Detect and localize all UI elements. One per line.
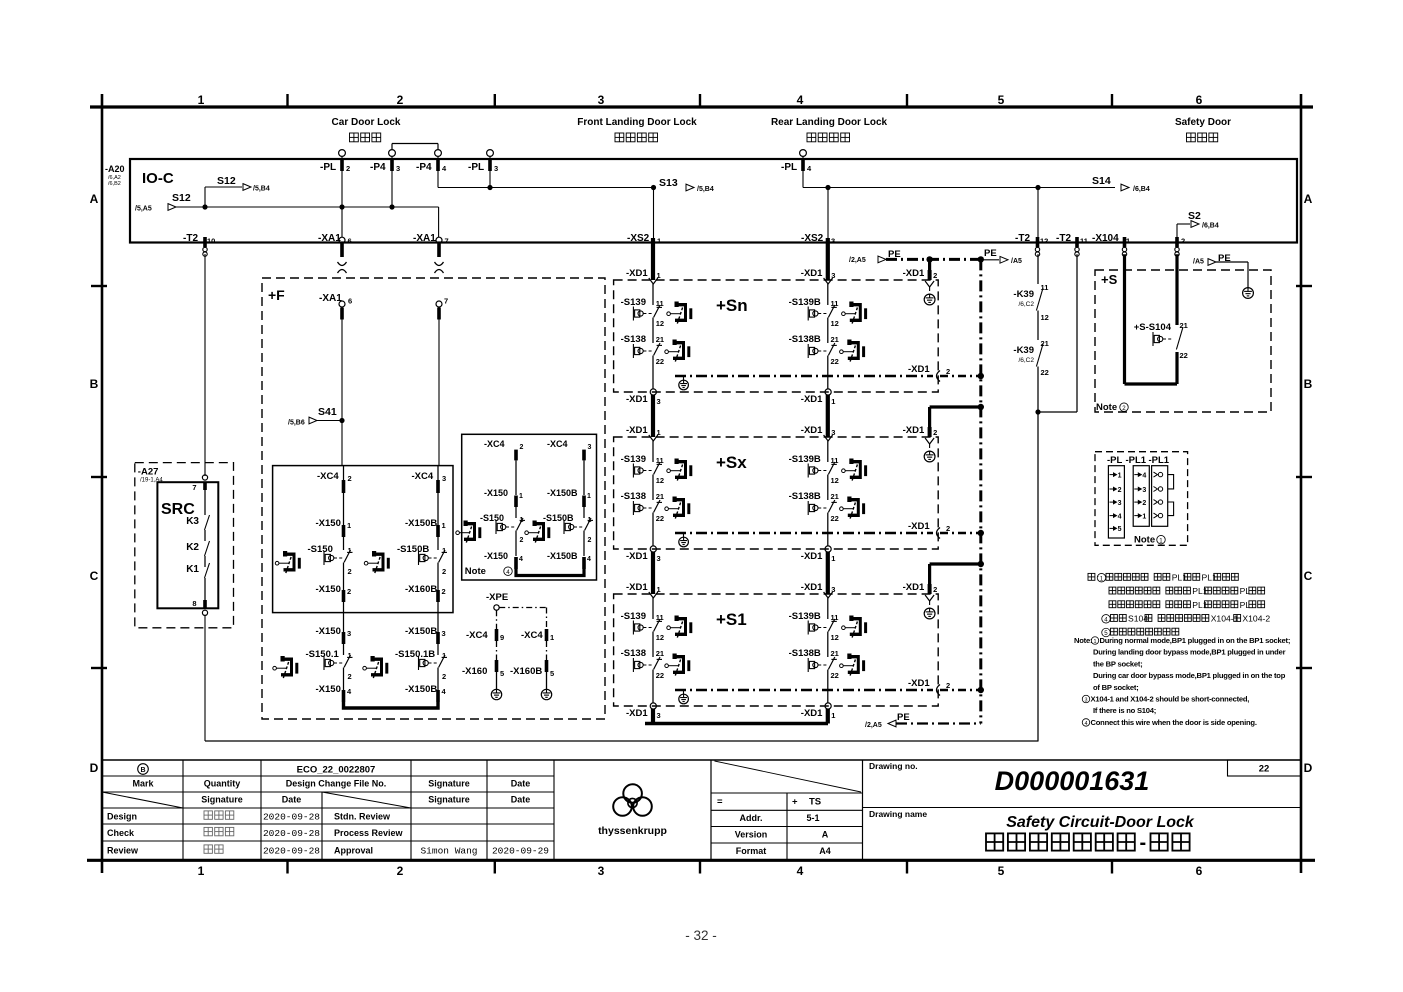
svg-text:4: 4 xyxy=(587,556,591,563)
svg-text:-S139B: -S139B xyxy=(789,297,821,308)
svg-text:-XD1: -XD1 xyxy=(903,582,925,593)
svg-text:-XD1: -XD1 xyxy=(903,425,925,436)
svg-text:-XD1: -XD1 xyxy=(626,582,648,593)
svg-text:12: 12 xyxy=(831,319,839,328)
svg-text:Mark: Mark xyxy=(132,779,154,789)
svg-text:1: 1 xyxy=(657,237,661,246)
svg-text:During landing door bypass mod: During landing door bypass mode,BP1 plug… xyxy=(1093,648,1286,657)
svg-text:-K39: -K39 xyxy=(1013,345,1034,356)
svg-text:1: 1 xyxy=(831,554,835,563)
svg-text:K2: K2 xyxy=(186,542,199,553)
svg-text:2: 2 xyxy=(442,672,446,681)
svg-text:2: 2 xyxy=(1118,487,1122,494)
svg-text:1: 1 xyxy=(550,633,554,642)
svg-text:A: A xyxy=(1304,192,1313,206)
svg-text:-XPE: -XPE xyxy=(486,592,508,603)
svg-text:21: 21 xyxy=(656,492,664,501)
svg-text:-S139: -S139 xyxy=(621,454,646,465)
svg-text:K3: K3 xyxy=(186,516,199,527)
svg-text:thyssenkrupp: thyssenkrupp xyxy=(598,825,667,837)
svg-text:-S150B: -S150B xyxy=(543,513,574,523)
svg-text:-T2: -T2 xyxy=(1015,233,1030,244)
svg-text:Version: Version xyxy=(735,830,768,840)
svg-text:1: 1 xyxy=(519,493,523,500)
svg-text:-S138B: -S138B xyxy=(789,334,821,345)
svg-text:3: 3 xyxy=(588,444,592,451)
svg-text:-X150: -X150 xyxy=(316,626,341,637)
svg-text:+S-S104: +S-S104 xyxy=(1134,322,1172,333)
svg-text:2: 2 xyxy=(946,367,950,376)
svg-text:Note: Note xyxy=(1134,535,1155,546)
svg-text:-XA1: -XA1 xyxy=(318,233,341,244)
svg-text:6: 6 xyxy=(348,297,352,306)
svg-text:-XS2: -XS2 xyxy=(627,233,650,244)
svg-text:3: 3 xyxy=(347,629,351,638)
svg-text:1: 1 xyxy=(1100,575,1104,582)
svg-text:-XD1: -XD1 xyxy=(801,394,823,405)
svg-text:21: 21 xyxy=(831,492,839,501)
svg-text:A: A xyxy=(822,830,829,840)
svg-text:3: 3 xyxy=(657,554,661,563)
svg-text:12: 12 xyxy=(656,476,664,485)
svg-text:Drawing no.: Drawing no. xyxy=(869,761,918,771)
svg-text:During normal mode,BP1 plugged: During normal mode,BP1 plugged in on the… xyxy=(1100,636,1291,645)
svg-text:/6,B4: /6,B4 xyxy=(1133,186,1150,193)
svg-text:10: 10 xyxy=(207,237,215,246)
svg-text:+Sn: +Sn xyxy=(716,296,748,315)
svg-text:1: 1 xyxy=(198,93,205,107)
svg-text:/5,A5: /5,A5 xyxy=(135,206,152,213)
svg-text:2: 2 xyxy=(346,164,350,173)
svg-text:2: 2 xyxy=(588,537,592,544)
svg-text:S2: S2 xyxy=(1188,210,1201,222)
svg-text:5: 5 xyxy=(998,93,1005,107)
svg-text:-S139B: -S139B xyxy=(789,454,821,465)
svg-text:-K39: -K39 xyxy=(1013,289,1034,300)
svg-text:5: 5 xyxy=(550,669,554,678)
svg-text:1: 1 xyxy=(1094,639,1097,645)
svg-text:ECO_22_0022807: ECO_22_0022807 xyxy=(297,765,376,776)
svg-text:-XS2: -XS2 xyxy=(801,233,824,244)
svg-text:PL1: PL1 xyxy=(1172,573,1188,583)
svg-text:-XD1: -XD1 xyxy=(801,708,823,719)
svg-text:22: 22 xyxy=(656,357,664,366)
svg-text:PL1: PL1 xyxy=(1192,600,1208,610)
svg-text:D: D xyxy=(1304,761,1313,775)
svg-text:12: 12 xyxy=(831,476,839,485)
svg-text:3: 3 xyxy=(1142,487,1146,494)
svg-text:1: 1 xyxy=(198,864,205,878)
svg-text:4: 4 xyxy=(1142,472,1146,479)
svg-text:21: 21 xyxy=(656,649,664,658)
svg-text:-XD1: -XD1 xyxy=(626,551,648,562)
svg-text:2: 2 xyxy=(397,864,404,878)
svg-text:-PL1: -PL1 xyxy=(1126,455,1147,466)
svg-text:-XD1: -XD1 xyxy=(626,394,648,405)
svg-text:-X150B: -X150B xyxy=(547,551,578,561)
svg-text:A4: A4 xyxy=(819,846,831,856)
svg-text:S14: S14 xyxy=(1092,175,1111,187)
svg-text:Approval: Approval xyxy=(334,846,373,856)
svg-text:X104-1: X104-1 xyxy=(1211,614,1239,624)
svg-text:2: 2 xyxy=(933,271,937,280)
svg-text:-XD1: -XD1 xyxy=(626,268,648,279)
svg-text:-XA1: -XA1 xyxy=(319,293,342,304)
svg-text:Rear Landing Door Lock: Rear Landing Door Lock xyxy=(771,117,888,128)
svg-text:-PL1: -PL1 xyxy=(1149,455,1170,466)
svg-text:Car Door Lock: Car Door Lock xyxy=(332,117,401,128)
svg-text:4: 4 xyxy=(1118,513,1122,520)
svg-text:S12: S12 xyxy=(217,175,236,187)
svg-text:PE: PE xyxy=(984,248,997,259)
svg-text:Connect this wire when the doo: Connect this wire when the door is side … xyxy=(1091,718,1257,727)
svg-text:-XD1: -XD1 xyxy=(801,268,823,279)
svg-text:Design Change File No.: Design Change File No. xyxy=(286,779,387,789)
svg-text:-S139: -S139 xyxy=(621,297,646,308)
svg-text:5-1: 5-1 xyxy=(806,813,819,823)
svg-text:3: 3 xyxy=(657,711,661,720)
svg-text:Review: Review xyxy=(107,846,139,856)
svg-text:-X150: -X150 xyxy=(484,488,508,498)
svg-text:Note: Note xyxy=(465,566,486,577)
svg-text:-XD1: -XD1 xyxy=(801,425,823,436)
svg-text:/2,A5: /2,A5 xyxy=(849,257,866,264)
svg-text:During car door bypass mode,BP: During car door bypass mode,BP1 plugged … xyxy=(1093,671,1286,680)
svg-text:Note: Note xyxy=(1096,402,1117,413)
svg-text:22: 22 xyxy=(831,671,839,680)
svg-text:-XD1: -XD1 xyxy=(908,364,930,375)
svg-text:-S139: -S139 xyxy=(621,611,646,622)
svg-text:-T2: -T2 xyxy=(183,233,198,244)
svg-text:8: 8 xyxy=(192,599,196,608)
svg-text:-X150: -X150 xyxy=(316,684,341,695)
svg-text:Signature: Signature xyxy=(428,779,470,789)
svg-text:4: 4 xyxy=(1085,721,1088,727)
svg-text:Note:: Note: xyxy=(1074,636,1092,645)
svg-text:12: 12 xyxy=(1041,313,1049,322)
svg-text:2: 2 xyxy=(933,428,937,437)
svg-text:7: 7 xyxy=(192,483,196,492)
svg-text:-S138B: -S138B xyxy=(789,648,821,659)
svg-text:2: 2 xyxy=(348,567,352,576)
svg-text:-S138: -S138 xyxy=(621,491,646,502)
svg-text:Simon Wang: Simon Wang xyxy=(420,846,477,857)
svg-text:PE: PE xyxy=(897,712,910,723)
svg-text:2020-09-28: 2020-09-28 xyxy=(263,812,320,823)
svg-text:/5,B4: /5,B4 xyxy=(697,186,714,193)
svg-text:Check: Check xyxy=(107,828,135,838)
svg-text:B: B xyxy=(140,767,145,774)
svg-text:21: 21 xyxy=(656,335,664,344)
svg-text:3: 3 xyxy=(494,164,498,173)
svg-text:2: 2 xyxy=(520,537,524,544)
svg-text:/2,A5: /2,A5 xyxy=(865,722,882,729)
svg-text:11: 11 xyxy=(1080,237,1088,246)
svg-text:-: - xyxy=(1140,832,1147,854)
svg-text:2: 2 xyxy=(933,585,937,594)
svg-text:D: D xyxy=(90,761,99,775)
svg-text:1: 1 xyxy=(831,711,835,720)
svg-text:TS: TS xyxy=(809,797,821,808)
svg-text:+Sx: +Sx xyxy=(716,453,747,472)
svg-text:+F: +F xyxy=(268,287,285,303)
svg-text:Date: Date xyxy=(511,795,531,805)
svg-text:B: B xyxy=(1304,377,1313,391)
svg-text:-XD1: -XD1 xyxy=(903,268,925,279)
svg-text:4: 4 xyxy=(519,556,523,563)
svg-text:12: 12 xyxy=(831,633,839,642)
svg-text:1: 1 xyxy=(1118,472,1122,479)
svg-text:/A5: /A5 xyxy=(1011,258,1022,265)
svg-text:3: 3 xyxy=(442,474,446,483)
svg-text:3: 3 xyxy=(1085,697,1088,703)
svg-text:-S150.1B: -S150.1B xyxy=(395,649,435,660)
svg-text:3: 3 xyxy=(442,629,446,638)
svg-text:4: 4 xyxy=(797,93,804,107)
svg-text:-X150B: -X150B xyxy=(405,684,437,695)
svg-text:Signature: Signature xyxy=(201,795,243,805)
svg-text:the BP socket;: the BP socket; xyxy=(1093,659,1143,668)
svg-text:21: 21 xyxy=(831,649,839,658)
svg-text:2: 2 xyxy=(1142,500,1146,507)
svg-text:IO-C: IO-C xyxy=(142,170,174,187)
svg-text:/6,B2: /6,B2 xyxy=(108,181,121,187)
svg-text:6: 6 xyxy=(1196,864,1203,878)
svg-text:-X160: -X160 xyxy=(462,666,487,677)
svg-text:1: 1 xyxy=(1126,237,1130,246)
svg-text:22: 22 xyxy=(1259,764,1270,775)
svg-text:/6,C2: /6,C2 xyxy=(1018,301,1034,308)
svg-text:C: C xyxy=(1304,569,1313,583)
svg-text:-S150.1: -S150.1 xyxy=(306,649,340,660)
svg-text:/5,B6: /5,B6 xyxy=(288,420,305,427)
svg-text:-S150B: -S150B xyxy=(397,544,429,555)
svg-text:-X150B: -X150B xyxy=(405,518,437,529)
svg-text:-S138: -S138 xyxy=(621,648,646,659)
svg-text:Date: Date xyxy=(282,795,302,805)
svg-text:-XC4: -XC4 xyxy=(521,630,543,641)
svg-text:-X160B: -X160B xyxy=(510,666,542,677)
svg-text:S12: S12 xyxy=(172,192,191,204)
svg-text:Stdn. Review: Stdn. Review xyxy=(334,812,391,822)
svg-text:12: 12 xyxy=(656,633,664,642)
svg-text:5: 5 xyxy=(1118,526,1122,533)
svg-text:22: 22 xyxy=(656,671,664,680)
svg-text:4: 4 xyxy=(797,864,804,878)
svg-text:2: 2 xyxy=(1122,405,1126,412)
svg-text:-X150: -X150 xyxy=(316,518,341,529)
svg-text:+: + xyxy=(792,797,798,808)
svg-text:-X150B: -X150B xyxy=(547,488,578,498)
svg-text:Front Landing Door Lock: Front Landing Door Lock xyxy=(577,117,697,128)
svg-text:-P4: -P4 xyxy=(370,162,386,173)
svg-text:-P4: -P4 xyxy=(416,162,432,173)
svg-text:1: 1 xyxy=(347,521,351,530)
svg-text:9: 9 xyxy=(500,633,504,642)
svg-text:-S150: -S150 xyxy=(480,513,504,523)
svg-text:1: 1 xyxy=(442,521,446,530)
svg-text:Safety Door: Safety Door xyxy=(1175,117,1231,128)
svg-text:-XC4: -XC4 xyxy=(547,439,568,449)
svg-text:1: 1 xyxy=(831,397,835,406)
svg-text:2: 2 xyxy=(348,474,352,483)
svg-text:6: 6 xyxy=(348,237,352,246)
svg-text:2: 2 xyxy=(347,587,351,596)
svg-text:2020-09-28: 2020-09-28 xyxy=(263,846,320,857)
svg-text:-PL: -PL xyxy=(320,162,336,173)
svg-text:=: = xyxy=(717,797,723,808)
svg-text:PL1: PL1 xyxy=(1202,573,1218,583)
svg-text:7: 7 xyxy=(445,237,449,246)
svg-text:-XD1: -XD1 xyxy=(801,551,823,562)
svg-text:-S139B: -S139B xyxy=(789,611,821,622)
svg-text:-X150: -X150 xyxy=(316,584,341,595)
svg-text:12: 12 xyxy=(656,319,664,328)
svg-text:5: 5 xyxy=(500,669,504,678)
svg-text:22: 22 xyxy=(1041,368,1049,377)
svg-text:-T2: -T2 xyxy=(1056,233,1071,244)
svg-text:4: 4 xyxy=(506,569,510,576)
svg-text:3: 3 xyxy=(831,237,835,246)
svg-text:Design: Design xyxy=(107,812,137,822)
svg-text:3: 3 xyxy=(598,93,605,107)
svg-text:-X104: -X104 xyxy=(1092,233,1119,244)
svg-text:S13: S13 xyxy=(659,177,678,189)
svg-text:3: 3 xyxy=(598,864,605,878)
svg-text:Addr.: Addr. xyxy=(739,813,762,823)
svg-text:Format: Format xyxy=(736,846,767,856)
svg-text:-S138B: -S138B xyxy=(789,491,821,502)
svg-text:2020-09-29: 2020-09-29 xyxy=(492,846,549,857)
svg-text:/5,B4: /5,B4 xyxy=(253,186,270,193)
svg-text:Safety Circuit-Door Lock: Safety Circuit-Door Lock xyxy=(1006,814,1195,831)
svg-text:3: 3 xyxy=(396,164,400,173)
svg-text:2: 2 xyxy=(946,681,950,690)
svg-text:-S138: -S138 xyxy=(621,334,646,345)
svg-text:-XC4: -XC4 xyxy=(466,630,488,641)
svg-text:7: 7 xyxy=(444,297,448,306)
svg-text:1: 1 xyxy=(1159,537,1163,544)
svg-text:1: 1 xyxy=(1142,513,1146,520)
svg-text:-XC4: -XC4 xyxy=(484,439,505,449)
svg-text:-X150B: -X150B xyxy=(405,626,437,637)
svg-text:S41: S41 xyxy=(318,406,337,418)
svg-text:22: 22 xyxy=(656,514,664,523)
svg-text:21: 21 xyxy=(831,335,839,344)
svg-text:2: 2 xyxy=(397,93,404,107)
svg-text:-XD1: -XD1 xyxy=(626,425,648,436)
svg-text:K1: K1 xyxy=(186,564,199,575)
svg-text:12: 12 xyxy=(1040,237,1048,246)
svg-text:- 32 -: - 32 - xyxy=(685,928,717,943)
svg-text:-X150: -X150 xyxy=(484,551,508,561)
svg-text:A: A xyxy=(90,192,99,206)
svg-text:2: 2 xyxy=(520,444,524,451)
svg-text:-A27: -A27 xyxy=(138,467,159,478)
svg-text:2: 2 xyxy=(1181,237,1185,246)
svg-text:-XC4: -XC4 xyxy=(317,471,339,482)
svg-text:22: 22 xyxy=(831,514,839,523)
svg-text:22: 22 xyxy=(1180,351,1188,360)
svg-text:/6,C2: /6,C2 xyxy=(1018,357,1034,364)
svg-text:X104-1 and X104-2 should be sh: X104-1 and X104-2 should be short-connec… xyxy=(1091,695,1250,704)
svg-text:2: 2 xyxy=(442,587,446,596)
svg-text:21: 21 xyxy=(1180,321,1188,330)
svg-text:22: 22 xyxy=(831,357,839,366)
svg-text:B: B xyxy=(90,377,99,391)
svg-text:-XD1: -XD1 xyxy=(801,582,823,593)
svg-text:-A20: -A20 xyxy=(105,164,125,174)
svg-text:-PL: -PL xyxy=(1107,455,1123,466)
svg-text:Date: Date xyxy=(511,779,531,789)
svg-text:-XD1: -XD1 xyxy=(908,521,930,532)
svg-text:-X160B: -X160B xyxy=(405,584,437,595)
svg-text:2: 2 xyxy=(946,524,950,533)
svg-text:2: 2 xyxy=(442,567,446,576)
svg-text:Process Review: Process Review xyxy=(334,828,404,838)
svg-text:of BP socket;: of BP socket; xyxy=(1093,683,1139,692)
svg-text:2: 2 xyxy=(348,672,352,681)
svg-text:2020-09-28: 2020-09-28 xyxy=(263,828,320,839)
svg-text:/A5: /A5 xyxy=(1193,259,1204,266)
svg-text:-XD1: -XD1 xyxy=(626,708,648,719)
svg-text:PL1: PL1 xyxy=(1192,586,1208,596)
svg-text:Drawing name: Drawing name xyxy=(869,809,927,819)
svg-text:6: 6 xyxy=(1196,93,1203,107)
svg-text:-XC4: -XC4 xyxy=(412,471,434,482)
svg-text:Signature: Signature xyxy=(428,795,470,805)
svg-text:5: 5 xyxy=(998,864,1005,878)
svg-text:-XA1: -XA1 xyxy=(413,233,436,244)
svg-text:If there is no S104;: If there is no S104; xyxy=(1093,706,1156,715)
svg-text:/6,B4: /6,B4 xyxy=(1202,223,1219,230)
svg-text:-S150: -S150 xyxy=(308,544,333,555)
svg-text:4: 4 xyxy=(1104,616,1108,623)
svg-text:3: 3 xyxy=(1118,500,1122,507)
svg-text:D000001631: D000001631 xyxy=(995,766,1150,796)
svg-text:Quantity: Quantity xyxy=(204,779,241,789)
svg-text:1: 1 xyxy=(587,493,591,500)
svg-text:-PL: -PL xyxy=(781,162,797,173)
svg-text:X104-2: X104-2 xyxy=(1242,614,1270,624)
svg-text:+S: +S xyxy=(1101,272,1118,287)
svg-text:-PL: -PL xyxy=(468,162,484,173)
svg-text:C: C xyxy=(90,569,99,583)
svg-text:3: 3 xyxy=(657,397,661,406)
svg-text:+S1: +S1 xyxy=(716,610,747,629)
svg-text:-XD1: -XD1 xyxy=(908,678,930,689)
